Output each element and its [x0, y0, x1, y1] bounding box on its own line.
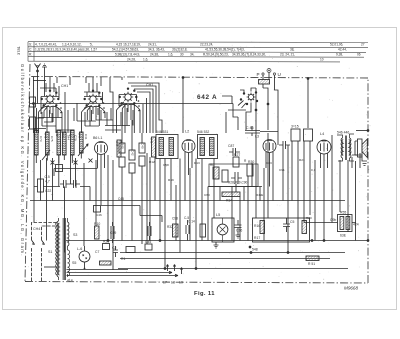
valve B5 rectifier: [79, 246, 90, 269]
wire: [36, 118, 53, 122]
svg-text:C60: C60: [204, 193, 210, 197]
wire: [34, 186, 90, 188]
wire drops wafer1 to coils: [39, 106, 63, 134]
capacitor C5b: [283, 218, 290, 232]
capacitor C-5: [186, 220, 189, 241]
parts table: [28, 42, 368, 62]
svg-text:C 86: C 86: [246, 126, 254, 130]
resistor R40: [119, 157, 125, 167]
svg-text:9,38,: 9,38,: [336, 52, 343, 56]
svg-text:R13: R13: [194, 161, 200, 165]
coil S42: [57, 130, 61, 155]
resistor R16: [260, 221, 265, 234]
svg-text:C2: C2: [112, 246, 116, 250]
wire right frame node: [356, 130, 368, 132]
svg-text:R40: R40: [121, 143, 125, 149]
svg-text:R1: R1: [121, 257, 125, 261]
svg-text:548: 548: [252, 248, 258, 252]
wire drops wafer3: [117, 104, 141, 134]
svg-text:41,53,55,36,38,54(1), 7(4)3,: 41,53,55,36,38,54(1), 7(4)3,: [205, 48, 245, 52]
svg-text:S5: S5: [72, 261, 76, 265]
coil labels vertical: [33, 131, 154, 156]
third stage network: [208, 112, 360, 253]
svg-text:CH1: CH1: [61, 84, 68, 88]
wire extra jogs: [42, 126, 121, 130]
resistor R45: [126, 247, 135, 253]
component value labels: [96, 158, 316, 220]
capacitor C49b: [148, 222, 151, 241]
svg-text:S3: S3: [73, 233, 77, 237]
svg-text:34,: 34,: [190, 52, 195, 56]
trimmer C: [74, 158, 78, 167]
wire steps mid: [101, 206, 162, 223]
svg-text:R16: R16: [254, 224, 260, 228]
svg-text:R10: R10: [94, 222, 100, 226]
svg-text:27: 27: [361, 43, 365, 47]
svg-text:C16: C16: [236, 229, 242, 233]
svg-text:3781: 3781: [16, 45, 21, 55]
svg-text:24,38,: 24,38,: [150, 52, 159, 56]
capacitor C49: [111, 222, 114, 243]
svg-text:L5: L5: [216, 213, 220, 217]
svg-text:R28,R29,C90: R28,R29,C90: [228, 181, 248, 185]
contact bar wafer2: [84, 96, 102, 98]
boxes C93: [291, 129, 300, 141]
resistor R51: [306, 256, 319, 261]
switch wafer CH1a: [39, 90, 63, 112]
wire: [33, 77, 35, 133]
svg-text:R12: R12: [149, 160, 155, 164]
wire verticals middle: [122, 120, 220, 269]
svg-text:C.5: C.5: [45, 175, 50, 179]
bus 3: [120, 258, 330, 260]
svg-text:R:: R:: [29, 52, 32, 56]
svg-text:B6 L1: B6 L1: [93, 136, 102, 140]
svg-text:39,(2)32,8,: 39,(2)32,8,: [172, 48, 188, 52]
capacitor C45: [145, 244, 152, 250]
svg-text:M9668: M9668: [344, 286, 358, 291]
resistor box: [38, 179, 44, 192]
switch wafer CH2: [117, 88, 141, 110]
coil S43: [63, 132, 67, 155]
svg-text:L8: L8: [171, 281, 175, 285]
mains input: [32, 223, 57, 282]
wire top bus: [30, 103, 233, 105]
coil S44: [71, 130, 75, 155]
svg-text:C42: C42: [131, 150, 135, 156]
output transformer: [337, 134, 354, 161]
resistor R36: [129, 150, 135, 160]
heater bus lines: [67, 270, 129, 276]
middle resistor chains: [119, 120, 220, 269]
svg-text:C:: C:: [29, 48, 32, 52]
wire drops wafer2 to coils: [82, 106, 106, 134]
svg-text:34,3, 36,43,: 34,3, 36,43,: [148, 48, 165, 52]
bus AVC: [30, 200, 345, 202]
wire mains L: [32, 223, 57, 282]
capacitor C96: [259, 80, 270, 89]
svg-text:546 532: 546 532: [197, 130, 209, 134]
coil S45: [80, 132, 84, 153]
resistor R6: [213, 167, 219, 179]
svg-text:S:: S:: [29, 43, 32, 47]
wire: [54, 169, 98, 177]
svg-text:C41: C41: [84, 134, 88, 140]
svg-text:S48: S48: [150, 138, 154, 144]
valve B4: [317, 140, 331, 240]
svg-text:544: 544: [67, 135, 71, 140]
wire stub: [44, 266, 57, 268]
svg-text:38,: 38,: [290, 48, 295, 52]
svg-text:24,31,: 24,31,: [148, 43, 157, 47]
resistor R25: [103, 244, 110, 250]
magic eye box L5: [212, 218, 234, 242]
valve B3: [263, 140, 276, 153]
svg-text:R6: R6: [210, 163, 214, 167]
small box C73: [30, 117, 36, 129]
IF transformer L3: [198, 135, 218, 159]
resistor R47: [200, 224, 206, 237]
svg-text:5,98(13),7,8,44,9,: 5,98(13),7,8,44,9,: [115, 52, 140, 56]
border frame dash-dot: [25, 64, 368, 283]
svg-text:Fig. 11: Fig. 11: [194, 291, 215, 297]
ground: [236, 232, 241, 238]
svg-text:L4: L4: [320, 132, 324, 136]
node: [33, 103, 35, 105]
main buses: [30, 201, 369, 270]
capacitor C47: [56, 165, 63, 172]
coil S41: [46, 132, 50, 155]
svg-text:63E: 63E: [340, 234, 347, 238]
svg-text:R39: R39: [168, 178, 174, 182]
svg-text:3=15: 3=15: [291, 125, 299, 129]
discriminator box: [209, 164, 258, 187]
svg-text:C45: C45: [145, 240, 151, 244]
aerial terminal: [35, 64, 41, 78]
grid network under B1: [34, 104, 113, 271]
wire drops into wafers: [46, 77, 97, 93]
valve B2: [182, 140, 195, 176]
wire coil drops: [36, 153, 81, 163]
svg-text:S42: S42: [55, 131, 59, 137]
svg-text:C5: C5: [290, 220, 294, 224]
tone network R55: [304, 155, 367, 241]
svg-text:C9b: C9b: [330, 218, 336, 222]
wire jogs below wafers: [38, 118, 130, 126]
capacitor C90: [231, 172, 242, 184]
svg-text:S41: S41: [44, 133, 48, 139]
ground: [214, 242, 219, 248]
switch contact arrows: [32, 242, 45, 244]
svg-text:0,1: 0,1: [311, 168, 316, 172]
svg-text:22,23,24,: 22,23,24,: [200, 43, 213, 47]
svg-text:C22: C22: [45, 189, 51, 193]
resistor R10: [95, 226, 100, 239]
resistor column: [152, 137, 156, 157]
wire long vertical to L4: [307, 79, 309, 129]
svg-text:P: P: [257, 72, 260, 77]
resistor R20: [302, 221, 307, 234]
resistor R34: [222, 192, 240, 197]
valve B1: [95, 142, 108, 176]
resistor R32: [173, 224, 179, 237]
capacitor C41: [129, 163, 135, 173]
svg-text:1,3,4,9,10,12,: 1,3,4,9,10,12,: [62, 43, 82, 47]
switch wafer CH1b: [82, 90, 106, 112]
svg-text:R49k: R49k: [256, 193, 264, 197]
svg-text:R27: R27: [234, 153, 240, 157]
svg-text:U: U: [278, 72, 281, 77]
svg-text:R 51: R 51: [308, 262, 315, 266]
node: [255, 109, 257, 111]
capacitor C16: [235, 220, 242, 232]
capacitor C2: [113, 246, 118, 257]
coil S40: [35, 130, 39, 155]
resistor R27: [233, 157, 239, 167]
boxes C103: [304, 129, 313, 141]
resistor R6b: [100, 261, 112, 265]
power transformer S1: [56, 218, 70, 280]
wire P/U drops: [263, 73, 278, 128]
contact dots column: [60, 100, 140, 113]
contact bar wafer1: [41, 96, 59, 98]
svg-text:1,2(15),28,31,33,3,34,33,8,40,: 1,2(15),28,31,33,3,34,33,8,40,pass,36, 1…: [35, 48, 97, 52]
svg-text:L2: L2: [185, 130, 189, 134]
IF transformer L1: [156, 135, 178, 159]
svg-text:4, 7,0,21,40,41,: 4, 7,0,21,40,41,: [35, 43, 57, 47]
tuning arrow: [42, 150, 50, 160]
svg-text:52,01,06,: 52,01,06,: [330, 43, 343, 47]
svg-text:R33: R33: [266, 161, 272, 165]
svg-text:54,2,(1)4,57,58,63,: 54,2,(1)4,57,58,63,: [112, 48, 139, 52]
svg-text:C98: C98: [172, 217, 178, 221]
trimmer C: [51, 158, 55, 167]
nodes: [164, 268, 166, 270]
svg-text:30: 30: [180, 52, 184, 56]
capacitor C86: [245, 126, 278, 136]
svg-text:4,15 16,17,18,19,: 4,15 16,17,18,19,: [116, 43, 141, 47]
trimmer C: [89, 159, 93, 163]
svg-text:L-6: L-6: [77, 247, 82, 251]
svg-text:C45: C45: [118, 197, 124, 201]
wire jog: [33, 77, 113, 129]
svg-text:546 446: 546 446: [337, 131, 349, 135]
svg-text:C49: C49: [110, 231, 116, 235]
svg-text:424: 424: [353, 223, 359, 227]
bus HT: [66, 240, 368, 242]
svg-text:546 531: 546 531: [156, 130, 168, 134]
capacitor C48: [60, 180, 70, 188]
wire h: [208, 186, 262, 188]
svg-text:06: 06: [357, 52, 361, 56]
switch wafer CH3: [238, 92, 258, 108]
svg-text:L9: L9: [179, 281, 183, 285]
svg-text:24,28,: 24,28,: [127, 57, 136, 61]
wire extra mesh upper-left: [42, 98, 147, 133]
svg-text:Golfbereikschakelaar op KG. V: Golfbereikschakelaar op KG. Volgorde: KG…: [20, 64, 25, 257]
svg-text:R55: R55: [340, 211, 346, 215]
resistor C40: [139, 143, 145, 153]
svg-text:S1: S1: [48, 250, 52, 254]
resistor R37: [139, 156, 145, 166]
svg-text:414: 414: [67, 279, 73, 283]
svg-text:1,6,: 1,6,: [143, 57, 148, 61]
resistor R8: [119, 143, 125, 153]
svg-text:C79: C79: [74, 135, 78, 141]
svg-text:10: 10: [320, 57, 324, 61]
capacitor C6: [279, 141, 290, 149]
svg-text:1,6,: 1,6,: [168, 52, 173, 56]
resistor column: [117, 140, 121, 157]
svg-text:R,50,34,(9),50,23,: R,50,34,(9),50,23,: [203, 52, 229, 56]
svg-text:42,44,: 42,44,: [338, 48, 347, 52]
svg-text:C87: C87: [228, 144, 234, 148]
wire loop left: [33, 80, 46, 82]
dial lamp arrows L7 L8 L9: [112, 265, 183, 277]
AF box: [253, 218, 310, 242]
svg-text:C 14: C 14: [188, 220, 195, 224]
small box left column: [30, 97, 36, 107]
bus 2: [120, 252, 345, 254]
resistor R28: [222, 170, 228, 182]
wire verticals right-mid: [226, 112, 360, 253]
wire wafer4 net: [222, 88, 268, 130]
svg-text:34,35,36,(7),8,24,33,30,: 34,35,36,(7),8,24,33,30,: [232, 52, 266, 56]
capacitor C44: [70, 180, 80, 188]
svg-text:C91: C91: [279, 168, 285, 172]
capacitor C46: [94, 206, 101, 213]
loudspeaker: [355, 139, 367, 158]
svg-text:R30: R30: [248, 160, 254, 164]
wire left verticals: [34, 104, 113, 271]
svg-text:C7: C7: [95, 250, 99, 254]
svg-text:C75: C75: [50, 136, 54, 142]
wire mains R: [42, 226, 57, 281]
svg-text:642 A: 642 A: [197, 94, 217, 101]
wire extra drops: [37, 86, 137, 133]
svg-text:S40: S40: [33, 131, 37, 137]
svg-text:C73: C73: [39, 136, 43, 142]
P U terminals: [262, 69, 276, 76]
svg-text:R21: R21: [299, 158, 305, 162]
svg-text:C46: C46: [96, 213, 102, 217]
wire horizontals upper: [40, 88, 99, 97]
capacitor C87: [229, 148, 240, 156]
svg-text:L7: L7: [163, 281, 167, 285]
tuning arrow: [78, 144, 88, 156]
svg-text:R17: R17: [254, 236, 260, 240]
wire long vertical to L2: [182, 78, 184, 134]
resistor R30: [247, 164, 253, 176]
svg-text:CH4: CH4: [33, 227, 40, 231]
svg-text:S47: S47: [115, 141, 119, 147]
svg-text:5,: 5,: [90, 43, 93, 47]
bus 4: [118, 268, 348, 270]
svg-text:543: 543: [61, 133, 65, 138]
svg-text:23, 24, 21,: 23, 24, 21,: [280, 52, 295, 56]
earth terminal: [42, 64, 47, 77]
svg-text:R32: R32: [167, 225, 173, 229]
contact bar wafer3: [119, 94, 137, 96]
nested loop wires right of wafer3: [137, 92, 150, 133]
svg-text:C40: C40: [141, 143, 145, 149]
